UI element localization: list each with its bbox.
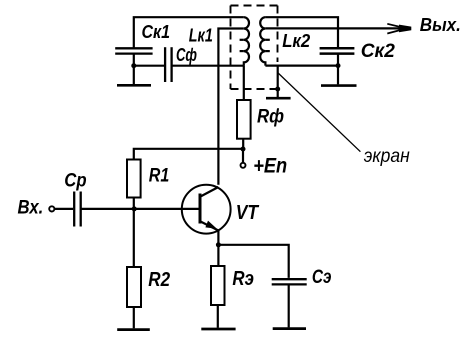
svg-text:Rф: Rф — [257, 106, 284, 128]
wire emitter to Ce — [218, 245, 288, 278]
wire node to Cf — [134, 65, 164, 67]
wire Lk2 bottom bus — [265, 64, 338, 66]
svg-text:R1: R1 — [149, 165, 170, 186]
resistor R2 — [127, 267, 141, 307]
wire Lk2 tap to output — [265, 27, 408, 29]
svg-text:R2: R2 — [148, 269, 170, 291]
leader line ekran — [278, 73, 361, 152]
node Ck1 junction — [131, 63, 136, 68]
node emitter junction — [216, 242, 221, 247]
wire +En rail to R1 — [134, 149, 243, 160]
wire Cf to Lk1 bottom — [172, 65, 244, 67]
svg-text:Ср: Ср — [64, 169, 86, 191]
svg-text:Вх.: Вх. — [18, 197, 44, 219]
wire Re to ground — [217, 305, 219, 328]
wire Ck1 bottom to node — [133, 54, 135, 66]
svg-text:VT: VT — [236, 201, 260, 224]
svg-text:Lк2: Lк2 — [282, 30, 311, 51]
svg-text:Сф: Сф — [176, 44, 197, 65]
wire input to Cp — [54, 208, 73, 210]
inductor Lk2 — [260, 17, 265, 65]
wire R1 bottom to node — [133, 198, 135, 209]
resistor R1 — [127, 160, 141, 198]
svg-text:Сэ: Сэ — [312, 266, 332, 288]
svg-text:Rэ: Rэ — [232, 268, 254, 290]
svg-text:Вых.: Вых. — [420, 14, 461, 35]
node +En junction — [241, 147, 246, 152]
inductor Lk1 — [244, 17, 249, 65]
svg-text:Lк1: Lк1 — [189, 24, 213, 45]
wire Ce to ground — [288, 284, 290, 327]
node screen junction — [275, 87, 280, 92]
wire top bus Ck1 to Lk1 — [134, 17, 244, 48]
ground under Ck2 — [337, 66, 339, 85]
ground under Re — [201, 328, 235, 331]
wire Ck2 bottom to node — [337, 54, 339, 66]
svg-text:+En: +En — [253, 155, 287, 178]
capacitor Ce — [272, 279, 307, 284]
capacitor Ck2 — [320, 48, 355, 53]
ground under R2 — [117, 328, 150, 331]
wire screen ground stub — [277, 66, 279, 97]
capacitor Cp — [74, 192, 81, 227]
node base junction — [132, 206, 137, 211]
terminal Vx input — [49, 206, 54, 211]
ground screen — [266, 97, 291, 100]
svg-text:Ск1: Ск1 — [142, 22, 171, 42]
svg-text:экран: экран — [364, 145, 410, 167]
node Ck2 ground junction — [336, 63, 341, 68]
wire Cp to base — [81, 208, 199, 210]
shield box (screen) — [231, 6, 278, 90]
transistor VT — [182, 185, 231, 234]
capacitor Ck1 — [115, 48, 152, 53]
ground under Ck1 — [133, 66, 135, 85]
resistor Rf — [237, 100, 251, 139]
wire Lk1 tap to collector line — [218, 29, 243, 185]
ground under Ce — [273, 327, 306, 330]
wire Lk1 bottom to Rf — [243, 66, 245, 100]
terminal +En — [242, 149, 244, 162]
wire node to R2 — [133, 209, 135, 267]
wire emitter down — [217, 230, 219, 266]
svg-text:Ск2: Ск2 — [361, 40, 395, 62]
wire Lk2 top to Ck2 — [265, 17, 338, 48]
wire Rf to +En node — [242, 139, 244, 149]
capacitor Cf — [165, 47, 172, 82]
resistor Re — [211, 266, 225, 305]
wire R2 to ground — [133, 307, 135, 328]
output arrow — [387, 24, 411, 34]
